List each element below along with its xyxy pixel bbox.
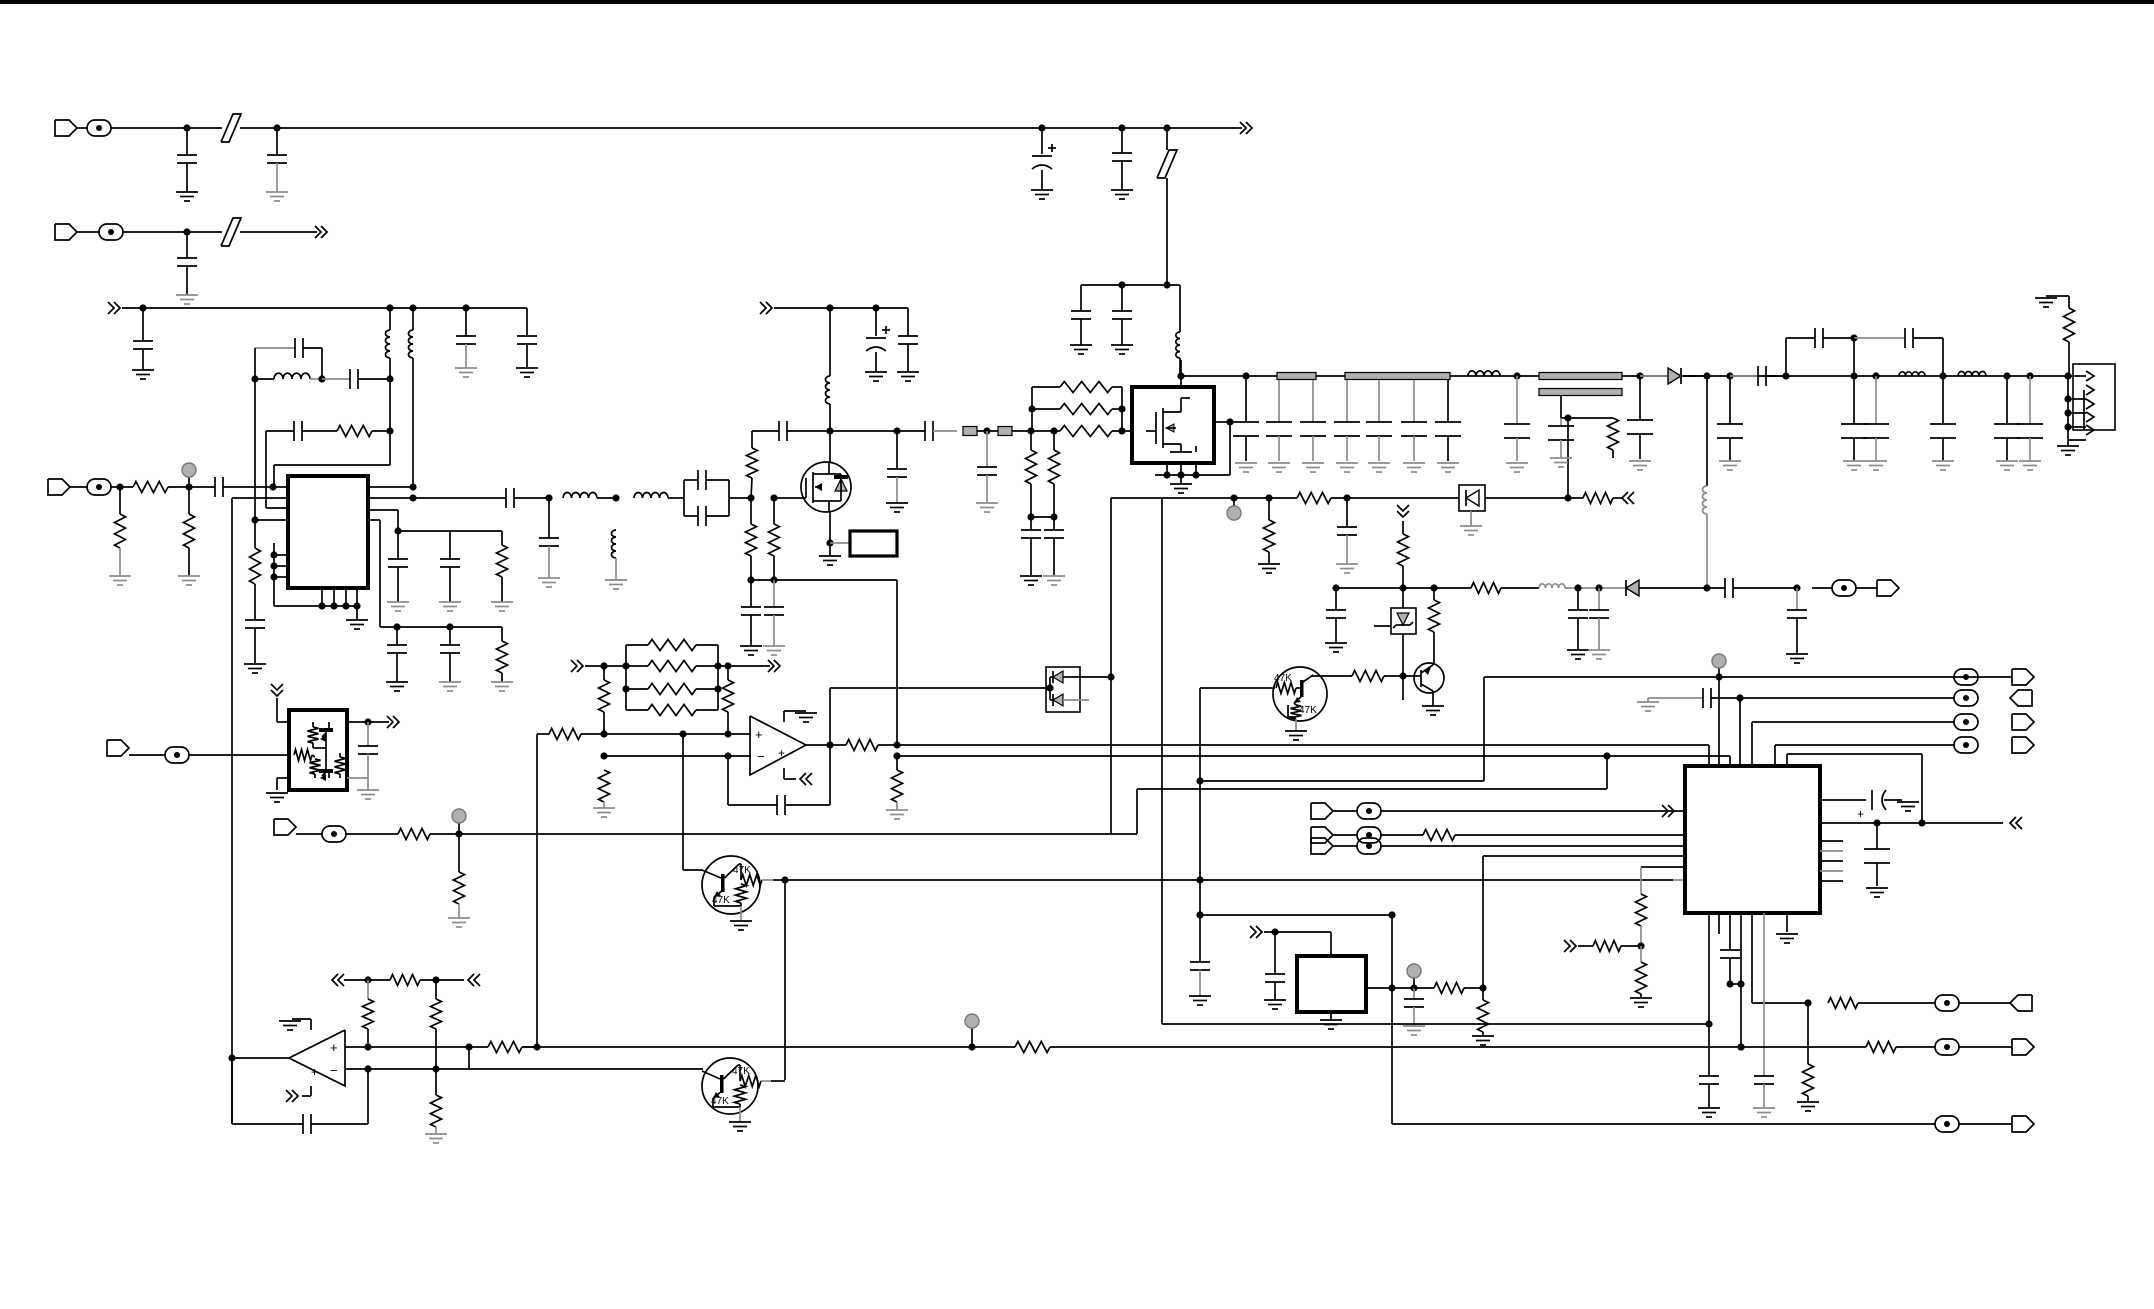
node S5 xyxy=(1726,980,1733,987)
wire base net xyxy=(682,734,684,870)
inductor L10 xyxy=(1702,486,1707,514)
capacitor C20 xyxy=(396,627,398,645)
wire xyxy=(311,1123,368,1125)
probe point P13 xyxy=(1357,838,1381,854)
off-page arrow down xyxy=(271,684,283,690)
node O11 xyxy=(724,752,731,759)
resistor R30 xyxy=(727,666,729,680)
ground xyxy=(1866,887,1888,889)
ground xyxy=(1776,933,1798,935)
wire xyxy=(977,430,998,432)
node U4 xyxy=(533,1043,540,1050)
transistor Q1 MOSFET xyxy=(801,462,851,512)
off-page arrow xyxy=(315,226,321,238)
node L1 xyxy=(1230,494,1237,501)
ground xyxy=(176,294,198,296)
capacitor C16 xyxy=(413,497,506,499)
capacitor C21 xyxy=(449,627,451,645)
node R5 xyxy=(1410,984,1417,991)
ground xyxy=(1111,189,1133,191)
IC U3 power amplifier xyxy=(1132,387,1214,463)
wire loop pin xyxy=(1786,754,1788,766)
resistor R45 xyxy=(390,975,420,986)
capacitor C53 xyxy=(1346,498,1348,527)
ground xyxy=(279,1020,301,1022)
node P1 xyxy=(364,718,371,725)
fuse F2 xyxy=(1166,128,1168,150)
capacitor C35 xyxy=(1278,380,1280,422)
resistor R43 xyxy=(1828,998,1858,1009)
node F4 xyxy=(251,516,258,523)
strip line T1 xyxy=(1277,373,1316,380)
svg-text:47K: 47K xyxy=(1299,705,1317,716)
ground xyxy=(1753,1107,1775,1109)
ground xyxy=(439,601,461,603)
node S3 xyxy=(1918,819,1925,826)
transistor Q3 xyxy=(1273,667,1327,721)
wire xyxy=(1959,1046,2012,1048)
node O15 xyxy=(1107,673,1114,680)
svg-text:47K: 47K xyxy=(712,895,730,906)
capacitor C18 xyxy=(388,558,408,560)
capacitor C43 xyxy=(1639,376,1641,420)
connector J14 xyxy=(2010,995,2032,1011)
wire pin14 xyxy=(368,509,398,511)
wire xyxy=(1031,516,1054,518)
node A5 xyxy=(1163,124,1170,131)
wire xyxy=(1820,822,2003,824)
capacitor C29 xyxy=(896,431,898,469)
resistor R40 xyxy=(1423,830,1455,841)
resistor R8 xyxy=(751,431,753,448)
ground xyxy=(1403,1025,1425,1027)
wire xyxy=(223,486,288,488)
transistor Q2 xyxy=(702,856,760,914)
connector J2 xyxy=(55,224,77,240)
wire fb loop xyxy=(727,756,729,805)
wire xyxy=(1111,497,1297,499)
wire gate xyxy=(774,497,806,499)
ground xyxy=(386,681,408,683)
ground xyxy=(1336,563,1358,565)
U1 bottom pins xyxy=(321,588,323,606)
resistor R36 xyxy=(458,834,460,872)
svg-text:47K: 47K xyxy=(732,1066,750,1077)
wire +row xyxy=(537,733,549,735)
resistor R37 xyxy=(1414,987,1434,989)
wire xyxy=(347,721,368,723)
wire xyxy=(1812,587,1832,589)
node K2 xyxy=(1513,372,1520,379)
node L4 xyxy=(1564,494,1571,501)
resistor R47 xyxy=(435,980,437,999)
wire xyxy=(830,542,850,544)
U1 aux pins xyxy=(273,543,275,606)
ground xyxy=(1268,462,1290,464)
wire xyxy=(1484,676,2012,678)
capacitor C63 xyxy=(1274,932,1276,974)
wire xyxy=(1613,497,1622,499)
test point TP3 xyxy=(1718,668,1720,677)
wire rail xyxy=(1392,1123,1935,1125)
wire row722 xyxy=(1752,721,1954,723)
capacitor C37 xyxy=(1346,380,1348,422)
wire pinB6 xyxy=(1763,913,1765,1076)
fuse F3 xyxy=(187,231,222,233)
resistor R14 xyxy=(1032,408,1060,410)
capacitor C55 xyxy=(1577,588,1579,610)
diode D1 xyxy=(1640,375,1668,377)
U3 bottom pins xyxy=(1166,463,1168,475)
ground xyxy=(1031,189,1053,191)
resistor R10 xyxy=(773,498,775,524)
svg-text:+: + xyxy=(330,1040,338,1055)
off-page arrow in xyxy=(108,302,114,314)
capacitor C1 xyxy=(186,128,188,155)
wire xyxy=(397,510,399,559)
capacitor C11 xyxy=(255,347,295,349)
node L2 xyxy=(1265,494,1272,501)
ground xyxy=(2019,460,2041,462)
op-amp U8 xyxy=(289,1030,345,1086)
ground xyxy=(1865,460,1887,462)
node F1 xyxy=(116,483,123,490)
wire xyxy=(1402,588,1404,608)
node G4 xyxy=(612,494,619,501)
ground xyxy=(1235,462,1257,464)
ground xyxy=(2035,297,2057,299)
ground xyxy=(1043,575,1065,577)
node N4 xyxy=(1736,694,1743,701)
node Q2c xyxy=(781,876,788,883)
probe point P15 xyxy=(1935,1039,1959,1055)
wire pinB5 xyxy=(1751,913,1753,1003)
resistor R44 xyxy=(1807,1003,1809,1064)
wire xyxy=(1072,676,1111,678)
svg-text:−: − xyxy=(757,749,765,764)
ground xyxy=(132,369,154,371)
capacitor C15 xyxy=(254,584,256,620)
node K8 xyxy=(1850,334,1857,341)
ground xyxy=(357,789,379,791)
node D2 xyxy=(386,304,393,311)
wire row756 xyxy=(897,755,1730,757)
node G5 xyxy=(394,527,401,534)
node K6 xyxy=(1726,372,1733,379)
wire pin2 xyxy=(232,497,288,499)
node K11 xyxy=(1939,372,1946,379)
off-page arrow xyxy=(474,974,480,986)
svg-text:+: + xyxy=(755,727,763,742)
wire xyxy=(1384,675,1414,677)
wire xyxy=(1485,497,1583,499)
wire collector xyxy=(771,1080,785,1082)
node D1 xyxy=(139,304,146,311)
capacitor C44 xyxy=(1729,376,1731,424)
resistor R48 xyxy=(488,1042,522,1053)
fuse F1 xyxy=(187,127,222,129)
capacitor C62 xyxy=(1190,961,1210,963)
node H1 xyxy=(747,494,754,501)
resistor R39 xyxy=(1578,945,1593,947)
wire xyxy=(522,1046,537,1048)
node U1 xyxy=(228,1054,235,1061)
node I9 xyxy=(1118,427,1125,434)
wire xyxy=(347,777,368,779)
off-page arrow xyxy=(768,660,774,672)
wire row E xyxy=(1200,914,1392,916)
node R3 xyxy=(1271,928,1278,935)
capacitor C45 xyxy=(1730,375,1758,377)
capacitor C33 xyxy=(1053,517,1055,530)
node A3 xyxy=(1038,124,1045,131)
node K12 xyxy=(2003,372,2010,379)
ground xyxy=(439,681,461,683)
ground xyxy=(109,575,131,577)
wire xyxy=(1501,587,1539,589)
ground xyxy=(491,601,513,603)
inductor L3 xyxy=(412,308,414,330)
node O7 xyxy=(600,730,607,737)
node J1 xyxy=(1177,372,1184,379)
resistor R32 xyxy=(599,770,610,802)
ground xyxy=(976,502,998,504)
wire xyxy=(111,127,187,129)
wire loop xyxy=(1161,498,1163,1024)
ferrite bead FB2 xyxy=(998,427,1012,436)
connector J12 xyxy=(1311,827,1333,843)
zener D4 boxed xyxy=(1391,608,1416,634)
capacitor C12 xyxy=(322,378,350,380)
connector J16 xyxy=(2012,1116,2034,1132)
wire diode feed xyxy=(830,687,1046,689)
capacitor C46 xyxy=(1814,328,1816,348)
resistor R19 xyxy=(1297,493,1331,504)
resistor R29 xyxy=(603,666,605,680)
IC U7 MCU xyxy=(1685,766,1820,913)
ground xyxy=(1422,705,1444,707)
connector J9 xyxy=(107,740,129,756)
capacitor C19 xyxy=(449,531,451,559)
node H3 xyxy=(747,576,754,583)
wire pin3 xyxy=(266,507,288,509)
wire x256 xyxy=(254,379,256,520)
wire xyxy=(372,430,390,432)
wire xyxy=(907,308,909,336)
ground xyxy=(886,809,908,811)
wire to off-page xyxy=(1167,127,1242,129)
ground xyxy=(1550,457,1572,459)
node C6a xyxy=(1118,281,1125,288)
node M1 xyxy=(1332,584,1339,591)
connector J11 xyxy=(1311,803,1333,819)
wire VIN rail xyxy=(277,127,1042,129)
wire xyxy=(430,833,1137,835)
U2 internals xyxy=(308,727,319,743)
node O13 xyxy=(893,741,900,748)
inductor L12 xyxy=(1958,371,1986,376)
capacitor C10 xyxy=(526,308,528,336)
node G2 xyxy=(409,494,416,501)
node U5 xyxy=(364,1065,371,1072)
ferrite bead FB1 xyxy=(963,427,977,436)
node H8 xyxy=(826,539,833,546)
ground xyxy=(1258,563,1280,565)
capacitor C42 xyxy=(1560,418,1562,426)
off-page arrow down xyxy=(1397,505,1409,511)
wire -row xyxy=(604,755,751,757)
node F2 xyxy=(185,483,192,490)
svg-text:+: + xyxy=(311,1065,318,1079)
wire pin15 xyxy=(368,497,413,499)
wire split xyxy=(683,480,685,516)
inductor L4 xyxy=(255,378,274,380)
resistor R22 xyxy=(1433,588,1435,600)
wire xyxy=(597,497,616,499)
test point TP4 xyxy=(458,822,460,834)
node O10 xyxy=(600,752,607,759)
capacitor C67 xyxy=(1699,1075,1719,1077)
node I4 xyxy=(1050,427,1057,434)
ground xyxy=(1472,1035,1494,1037)
coupled line T3b xyxy=(1539,389,1622,396)
diode pair D5 boxed xyxy=(1046,667,1080,712)
node H4 xyxy=(770,576,777,583)
probe point P5 xyxy=(1954,669,1978,685)
inductor L1 xyxy=(1179,285,1181,332)
node E1 xyxy=(251,375,258,382)
probe point P8 xyxy=(1954,737,1978,753)
resistor R21 xyxy=(1402,521,1404,534)
ground xyxy=(593,807,615,809)
wire rail xyxy=(537,1046,1015,1048)
coupled line T3 xyxy=(1539,373,1622,380)
svg-text:+: + xyxy=(1857,807,1864,821)
wire corner xyxy=(1483,677,1485,781)
resistor R11 xyxy=(1030,431,1032,450)
U3 internal MOSFET xyxy=(1146,430,1156,432)
ground xyxy=(763,645,785,647)
off-page arrow xyxy=(286,1090,292,1102)
inductor L5 xyxy=(563,493,597,498)
off-page arrow in xyxy=(1564,940,1570,952)
capacitor C23 xyxy=(697,506,699,526)
ground xyxy=(886,502,908,504)
ground xyxy=(516,367,538,369)
node M4 xyxy=(1574,584,1581,591)
node I7 xyxy=(1028,405,1035,412)
resistor R52 xyxy=(1866,1042,1896,1053)
wire row D xyxy=(1136,789,1138,834)
capacitor C39 xyxy=(1413,380,1415,422)
ground xyxy=(1264,999,1286,1001)
node I2 xyxy=(983,427,990,434)
wire join xyxy=(728,480,730,516)
off-page arrow xyxy=(338,974,344,986)
wire xyxy=(1122,127,1167,129)
capacitor C58 xyxy=(1796,588,1798,610)
wire collector xyxy=(1312,675,1352,677)
node T2 xyxy=(432,976,439,983)
wire supply xyxy=(774,307,908,309)
wire vee xyxy=(783,768,785,779)
probe point P11 xyxy=(1357,803,1381,819)
inductor L6 xyxy=(634,493,668,498)
node R1 xyxy=(1196,911,1203,918)
wire xyxy=(77,231,100,233)
wire xyxy=(168,486,215,488)
ground xyxy=(455,367,477,369)
capacitor C2 xyxy=(276,128,278,155)
ground xyxy=(1996,460,2018,462)
node O14 xyxy=(893,752,900,759)
node K9 xyxy=(1850,372,1857,379)
connector J7 xyxy=(2012,714,2034,730)
ground xyxy=(425,1133,447,1135)
node R6 xyxy=(1479,984,1486,991)
test point TP2 xyxy=(1233,498,1235,507)
node S4 xyxy=(1705,1020,1712,1027)
ground xyxy=(1070,344,1092,346)
ground xyxy=(1567,649,1589,651)
connector J6 xyxy=(2010,690,2032,706)
node T1 xyxy=(364,976,371,983)
wire xyxy=(420,979,464,981)
off-page arrow xyxy=(368,721,389,723)
wire row C xyxy=(1200,780,1484,782)
ground xyxy=(1843,460,1865,462)
wire xyxy=(585,665,626,667)
node K1 xyxy=(1242,372,1249,379)
inductor L8 xyxy=(829,308,831,376)
capacitor C28 xyxy=(898,335,918,337)
resistor R16 xyxy=(1608,418,1619,450)
wire +in xyxy=(345,1046,488,1048)
capacitor C9 xyxy=(465,308,467,336)
ground xyxy=(795,712,817,714)
resistor R13 xyxy=(1032,386,1060,388)
node S2 xyxy=(1873,819,1880,826)
capacitor C13 xyxy=(266,430,294,432)
node K3 xyxy=(1564,414,1571,421)
node A4 xyxy=(1118,124,1125,131)
ground xyxy=(1932,460,1954,462)
node K10 xyxy=(1872,372,1879,379)
resistor R3 xyxy=(119,487,121,514)
node I5 xyxy=(1027,513,1034,520)
node S1 xyxy=(1637,942,1644,949)
off-page arrow xyxy=(806,773,812,785)
node E3 xyxy=(386,375,393,382)
resistor R38 xyxy=(1482,988,1484,1000)
node H5 xyxy=(826,427,833,434)
wire pinB4 xyxy=(1740,913,1742,1047)
probe point P2 xyxy=(99,224,123,240)
wire pinB7 xyxy=(1786,913,1788,932)
ground xyxy=(387,601,409,603)
resistor R49 xyxy=(435,1069,437,1095)
node F3 xyxy=(269,483,276,490)
wire RF rail xyxy=(1181,375,2068,377)
IC U2 optocoupler xyxy=(289,710,347,790)
wire xyxy=(1042,127,1122,129)
node N3 xyxy=(1196,777,1203,784)
ground xyxy=(1189,995,1211,997)
node O2 xyxy=(622,662,629,669)
node K7 xyxy=(1782,372,1789,379)
wire xyxy=(1858,1002,1935,1004)
node O3 xyxy=(622,685,629,692)
